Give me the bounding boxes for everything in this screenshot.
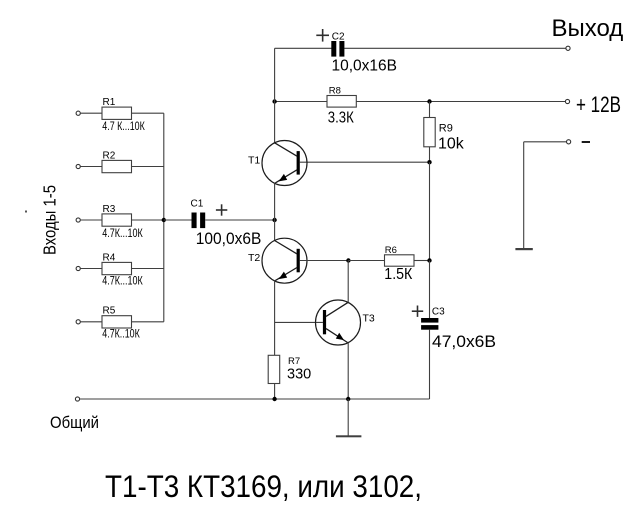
wire T3 base tap (275, 321, 323, 323)
wire main vertical top rail corner down to T1 (274, 48, 276, 143)
svg-text:Т1: Т1 (248, 154, 260, 166)
value label 10,0x16В (332, 58, 398, 75)
node junction bus to C1 (162, 218, 166, 222)
value label 330 (287, 367, 311, 383)
stray dot mark (25, 211, 27, 213)
node junction R6 right on bus (427, 258, 431, 262)
svg-text:R4: R4 (103, 252, 116, 263)
svg-text:R3: R3 (103, 204, 116, 215)
svg-text:R2: R2 (103, 150, 116, 161)
wire bus to C1 (164, 219, 192, 221)
wire +12V rail left segment (275, 101, 327, 103)
node +12V terminal (565, 99, 569, 103)
wire T1 base to R9 bottom (300, 161, 430, 163)
label R7 (288, 356, 300, 367)
transistor T1 (262, 141, 307, 186)
svg-text:Т2: Т2 (248, 252, 260, 264)
wire input 4 to R4 (80, 268, 102, 270)
svg-text:C3: C3 (432, 307, 445, 318)
svg-text:Входы 1-5: Входы 1-5 (40, 185, 60, 255)
wire R1 to left bus (132, 112, 164, 114)
label R3 (103, 204, 116, 215)
wire R6 right lead (414, 260, 430, 262)
wire top rail from C2 to output terminal (344, 47, 566, 49)
svg-text:C1: C1 (191, 199, 204, 210)
resistor R1 (102, 107, 132, 119)
node label Выход (552, 15, 624, 42)
value label 1.5K (384, 266, 413, 283)
node junction R7 bottom on rail (272, 397, 276, 401)
node junction R9 bottom / T1 base (427, 160, 431, 164)
label R8 (329, 86, 341, 97)
node junction T2 base / R6 / T3 collector (346, 258, 350, 262)
wire T2 emitter down main vertical (274, 281, 276, 355)
value label 4.7 K...10K (102, 121, 145, 133)
node label +12V (576, 92, 621, 117)
label R5 (103, 306, 116, 317)
svg-text:4.7 К...10К: 4.7 К...10К (102, 121, 145, 133)
node output terminal (566, 46, 570, 50)
node label common (50, 413, 99, 432)
wire negative terminal lead (524, 142, 567, 249)
node input 2 terminal (76, 164, 80, 168)
transistor T2 (262, 238, 307, 283)
wire input 3 to R3 (80, 219, 102, 221)
wire input 1 to R1 (80, 112, 102, 114)
wire input 5 to R5 (80, 321, 102, 323)
value label 4.7K...10K under R4 (102, 276, 143, 288)
svg-text:R5: R5 (103, 306, 116, 317)
label R1 (103, 97, 116, 108)
svg-text:3.3К: 3.3К (328, 110, 355, 127)
svg-text:10k: 10k (438, 136, 465, 153)
svg-text:4.7К..10К: 4.7К..10К (102, 328, 140, 340)
svg-text:100,0x6В: 100,0x6В (196, 230, 261, 248)
svg-text:R7: R7 (288, 356, 300, 367)
node input 5 terminal (76, 320, 80, 324)
wire T3 emitter down to ground rail (347, 343, 349, 399)
label C1 (191, 199, 204, 210)
svg-text:47,0x6В: 47,0x6В (432, 333, 496, 351)
resistor R4 (102, 262, 132, 274)
svg-text:Т3: Т3 (363, 313, 375, 325)
wire bus down to C3 (429, 261, 431, 319)
wire top rail from T1 collector node to C2 (275, 47, 332, 49)
label T3 (363, 313, 375, 325)
wire left summing bus (163, 113, 165, 322)
capacitor C2 (331, 41, 344, 57)
wire R4 to left bus (132, 268, 164, 270)
wire R3 to left bus (132, 219, 164, 221)
transistor T3 (316, 300, 361, 345)
wire R2 to left bus (132, 166, 164, 168)
wire R9 top lead (429, 102, 431, 118)
wire right bus R9 junction down to R6 junction (429, 162, 431, 260)
wire C1 to T1/T2 node (205, 219, 274, 221)
svg-text:R6: R6 (385, 245, 397, 256)
node junction C1 to main vertical (272, 218, 276, 222)
polarity plus of C2 (316, 29, 329, 42)
wire R6 left lead (348, 260, 384, 262)
svg-text:+ 12В: + 12В (576, 92, 621, 117)
value label 3.3K (328, 110, 355, 127)
node common terminal (75, 397, 79, 401)
svg-text:R9: R9 (439, 122, 453, 134)
node junction T3 emitter on rail (346, 397, 350, 401)
resistor R7 (268, 355, 280, 383)
wire input 2 to R2 (80, 166, 102, 168)
value label 4.7K...10K (102, 228, 143, 240)
wire C3 bottom to ground rail (429, 330, 431, 399)
ground symbol (336, 399, 362, 437)
label T1 (248, 154, 260, 166)
svg-text:R8: R8 (329, 86, 341, 97)
wire +12V rail right segment (356, 101, 565, 103)
value label 10k (438, 136, 465, 153)
node negative terminal (567, 140, 571, 144)
node junction main line to R8 (272, 99, 276, 103)
resistor R8 (327, 96, 356, 108)
node input 4 terminal (76, 266, 80, 270)
svg-text:Выход: Выход (552, 15, 624, 42)
node junction R8-R9-rail (427, 99, 431, 103)
svg-text:R1: R1 (103, 97, 116, 108)
wire R5 to left bus (132, 321, 164, 323)
label R2 (103, 150, 116, 161)
resistor R5 (102, 316, 132, 328)
svg-text:Т1-Т3 КТ3169, или 3102,: Т1-Т3 КТ3169, или 3102, (105, 468, 422, 504)
svg-text:4.7К...10К: 4.7К...10К (102, 228, 143, 240)
node input 1 terminal (76, 111, 80, 115)
value label 47,0x6В (432, 333, 496, 351)
wire T1 emitter to T2 collector (274, 183, 276, 240)
label T2 (248, 252, 260, 264)
capacitor C1 (192, 213, 206, 229)
resistor R3 (102, 214, 132, 226)
wire T2 base to junction (300, 260, 349, 262)
label C3 (432, 307, 445, 318)
value label 100,0x6В (196, 230, 261, 248)
wire R9 bottom lead (429, 147, 431, 162)
svg-text:330: 330 (287, 367, 311, 383)
node label minus (582, 141, 590, 143)
polarity plus of C3 (412, 306, 423, 317)
resistor R2 (102, 160, 132, 172)
svg-text:10,0x16В: 10,0x16В (332, 58, 398, 75)
label R6 (385, 245, 397, 256)
label C2 (332, 32, 345, 43)
resistor R9 (424, 118, 435, 147)
wire bottom common rail (80, 398, 430, 400)
label R9 (439, 122, 453, 134)
svg-text:Общий: Общий (50, 413, 99, 432)
ground bar at negative lead (515, 248, 532, 250)
capacitor C3 (421, 318, 438, 330)
resistor R6 (385, 255, 415, 266)
node input 3 terminal (76, 218, 80, 222)
svg-text:1.5К: 1.5К (384, 266, 413, 283)
node label inputs 1-5 (40, 185, 60, 255)
wire T3 collector up to T2 base junction (347, 261, 349, 303)
value label 4.7K..10K under R5 (102, 328, 140, 340)
svg-text:4.7К...10К: 4.7К...10К (102, 276, 143, 288)
wire R7 bottom lead (274, 384, 276, 400)
polarity plus of C1 (216, 204, 227, 215)
svg-text:C2: C2 (332, 32, 345, 43)
label R4 (103, 252, 116, 263)
caption transistor types (105, 468, 422, 504)
